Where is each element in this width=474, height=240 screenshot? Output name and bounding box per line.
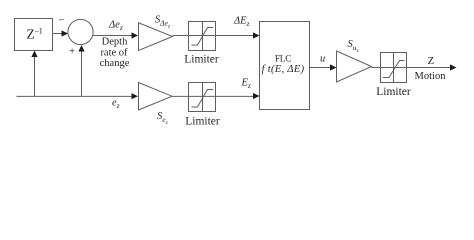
bottom input wire e_z	[17, 93, 139, 99]
limiter 1 (saturation block)	[189, 22, 216, 51]
gain label S_dez	[155, 15, 171, 30]
feedback branch up to Z^-1	[31, 51, 37, 97]
svg-text:change: change	[100, 58, 130, 69]
svg-text:f t(E, ΔE): f t(E, ΔE)	[262, 64, 305, 75]
wire FLC to gain S_uz	[310, 64, 337, 70]
svg-text:Limiter: Limiter	[185, 115, 220, 127]
svg-text:Suz: Suz	[348, 39, 360, 54]
wire gain S_uz to limiter 3 and output	[372, 64, 457, 70]
node label u	[320, 54, 325, 65]
wire gain S_dez to limiter 1 and on to FLC	[173, 32, 260, 38]
annotation: Depth rate of change	[100, 37, 130, 70]
gain label S_uz	[348, 39, 360, 54]
wire Z-1 to summing junction	[53, 30, 69, 36]
wire gain S_ez to limiter 2 and on to FLC	[172, 93, 260, 99]
svg-text:−: −	[59, 15, 65, 27]
plus sign	[69, 46, 75, 58]
node label delta-e_z	[108, 20, 123, 33]
gain label S_ez	[157, 111, 169, 126]
minus sign	[59, 15, 65, 27]
svg-text:ez: ez	[112, 98, 120, 111]
delay block Z^-1	[15, 19, 53, 51]
svg-text:Z–1: Z–1	[27, 27, 43, 42]
limiter 1 label	[184, 53, 219, 65]
FLC block	[260, 22, 310, 110]
node label E_z	[241, 78, 251, 91]
node label e_z	[112, 98, 120, 111]
svg-text:Depth: Depth	[102, 37, 128, 48]
svg-text:rate of: rate of	[100, 48, 128, 59]
svg-text:ΔEz: ΔEz	[233, 16, 250, 29]
svg-text:Limiter: Limiter	[376, 86, 411, 98]
feedback branch up to summing junction	[78, 45, 84, 96]
limiter 3 label	[376, 86, 411, 98]
node label delta-E_z	[233, 16, 250, 29]
svg-text:Δez: Δez	[108, 20, 123, 33]
svg-text:FLC: FLC	[275, 54, 291, 64]
limiter 3 (saturation block)	[381, 53, 407, 83]
svg-text:Ez: Ez	[241, 78, 251, 91]
limiter 2 label	[185, 115, 220, 127]
svg-text:u: u	[320, 54, 325, 65]
svg-text:Sez: Sez	[157, 111, 169, 126]
summing junction	[68, 19, 93, 44]
limiter 2 (saturation block)	[189, 83, 216, 112]
gain block S_dez (triangle)	[139, 23, 173, 51]
output label Z	[428, 55, 435, 67]
output label Motion	[415, 71, 447, 82]
wire summing junction to gain S_dez	[93, 32, 138, 38]
svg-text:SΔez: SΔez	[155, 15, 171, 30]
svg-text:Motion: Motion	[415, 71, 447, 82]
svg-text:Limiter: Limiter	[184, 53, 219, 65]
gain block S_uz (triangle)	[337, 51, 372, 82]
gain block S_ez (triangle)	[139, 83, 173, 111]
svg-text:Z: Z	[428, 55, 435, 67]
svg-text:+: +	[69, 46, 75, 58]
